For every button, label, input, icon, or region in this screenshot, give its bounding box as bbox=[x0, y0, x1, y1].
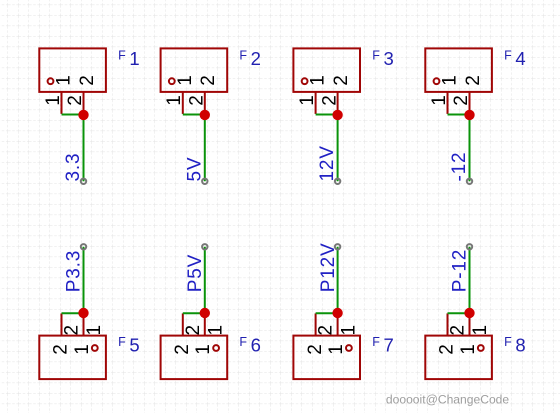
svg-text:1: 1 bbox=[326, 344, 347, 355]
wire end node bbox=[81, 244, 86, 249]
svg-text:2: 2 bbox=[172, 344, 193, 355]
svg-text:1: 1 bbox=[206, 325, 227, 336]
svg-text:1: 1 bbox=[308, 75, 329, 86]
svg-text:5V: 5V bbox=[184, 157, 205, 182]
fuse F2 body bbox=[161, 48, 228, 115]
svg-text:1: 1 bbox=[429, 95, 450, 106]
wire end node bbox=[335, 179, 340, 184]
wire vertical segment to net P3.3 bbox=[83, 247, 85, 313]
wire vertical segment to net P12V bbox=[337, 247, 339, 313]
fuse F8 body bbox=[425, 313, 492, 379]
svg-text:2: 2 bbox=[183, 325, 204, 336]
junction dot bbox=[332, 110, 342, 120]
wire end node bbox=[202, 244, 207, 249]
svg-text:2: 2 bbox=[305, 344, 326, 355]
wire horizontal segment bbox=[183, 114, 205, 116]
svg-text:P3.3: P3.3 bbox=[64, 250, 85, 292]
junction dot bbox=[332, 308, 342, 318]
svg-text:1: 1 bbox=[43, 95, 64, 106]
wire horizontal segment bbox=[316, 312, 338, 314]
wire vertical segment to net 12V bbox=[337, 115, 339, 181]
svg-text:P-12: P-12 bbox=[450, 249, 471, 292]
wire horizontal segment bbox=[62, 114, 84, 116]
svg-text:1: 1 bbox=[164, 95, 185, 106]
svg-text:1: 1 bbox=[84, 325, 105, 336]
wire end node bbox=[81, 179, 86, 184]
wire vertical segment to net -12 bbox=[469, 115, 471, 181]
svg-text:1: 1 bbox=[458, 344, 479, 355]
svg-text:1: 1 bbox=[72, 344, 93, 355]
svg-text:1: 1 bbox=[175, 75, 196, 86]
svg-text:P12V: P12V bbox=[318, 243, 339, 293]
wire end node bbox=[467, 179, 472, 184]
fuse F1 body bbox=[39, 48, 106, 115]
svg-text:2: 2 bbox=[316, 325, 337, 336]
svg-text:2: 2 bbox=[451, 95, 472, 106]
svg-text:1: 1 bbox=[440, 75, 461, 86]
wire horizontal segment bbox=[316, 114, 338, 116]
wire vertical segment to net P-12 bbox=[469, 247, 471, 313]
wire vertical segment to net 3.3 bbox=[83, 115, 85, 181]
fuse F4 body bbox=[425, 48, 492, 115]
svg-text:2: 2 bbox=[437, 344, 458, 355]
svg-text:2: 2 bbox=[463, 75, 484, 86]
wire end node bbox=[335, 244, 340, 249]
svg-text:2: 2 bbox=[319, 95, 340, 106]
wire vertical segment to net 5V bbox=[204, 115, 206, 181]
wire horizontal segment bbox=[448, 114, 470, 116]
junction dot bbox=[464, 110, 474, 120]
svg-text:1: 1 bbox=[338, 325, 359, 336]
wire horizontal segment bbox=[448, 312, 470, 314]
svg-text:2: 2 bbox=[187, 95, 208, 106]
svg-text:1: 1 bbox=[54, 75, 75, 86]
svg-text:12V: 12V bbox=[317, 145, 338, 181]
wire horizontal segment bbox=[183, 312, 205, 314]
junction dot bbox=[200, 110, 210, 120]
wire end node bbox=[467, 244, 472, 249]
svg-text:1: 1 bbox=[297, 95, 318, 106]
svg-text:2: 2 bbox=[331, 75, 352, 86]
fuse F7 body bbox=[293, 313, 360, 379]
junction dot bbox=[200, 308, 210, 318]
svg-text:P5V: P5V bbox=[185, 254, 206, 292]
wire end node bbox=[202, 179, 207, 184]
junction dot bbox=[78, 308, 88, 318]
svg-text:dooooit@ChangeCode: dooooit@ChangeCode bbox=[386, 392, 510, 406]
fuse F5 body bbox=[39, 313, 106, 379]
wire horizontal segment bbox=[62, 312, 84, 314]
fuse F6 body bbox=[161, 313, 228, 379]
svg-text:2: 2 bbox=[65, 95, 86, 106]
junction dot bbox=[464, 308, 474, 318]
junction dot bbox=[78, 110, 88, 120]
svg-text:2: 2 bbox=[198, 75, 219, 86]
wire vertical segment to net P5V bbox=[204, 247, 206, 313]
svg-text:1: 1 bbox=[193, 344, 214, 355]
fuse F3 body bbox=[293, 48, 360, 115]
svg-text:3.3: 3.3 bbox=[63, 153, 84, 182]
svg-text:2: 2 bbox=[448, 325, 469, 336]
svg-text:2: 2 bbox=[77, 75, 98, 86]
svg-text:2: 2 bbox=[62, 325, 83, 336]
svg-text:1: 1 bbox=[470, 325, 491, 336]
svg-text:2: 2 bbox=[51, 344, 72, 355]
svg-text:-12: -12 bbox=[449, 152, 470, 182]
